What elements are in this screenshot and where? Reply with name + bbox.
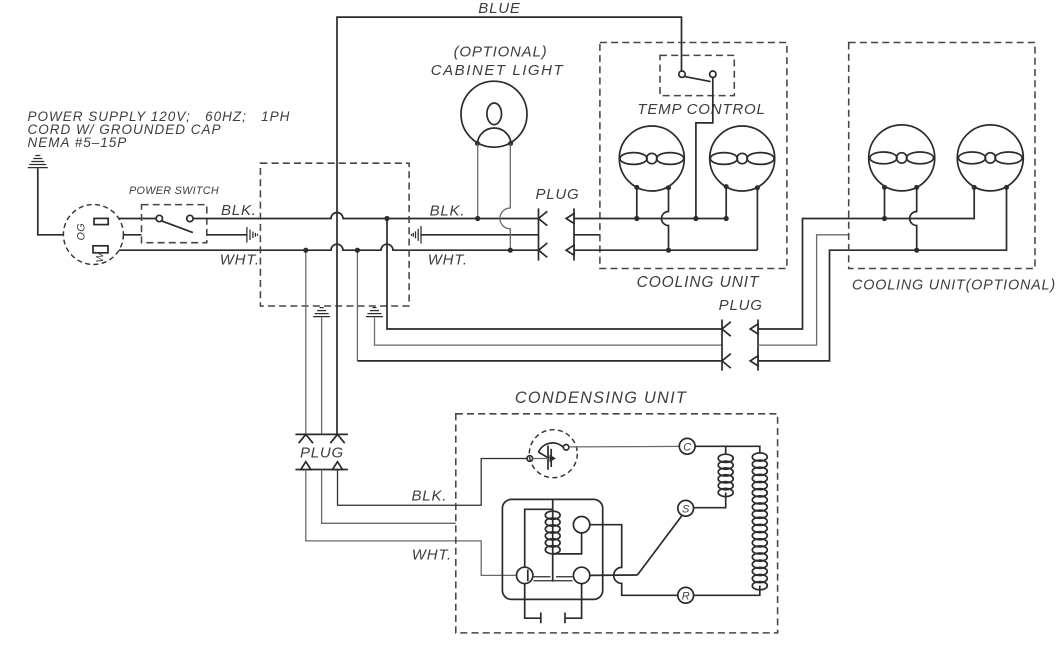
switch blade [162,221,193,233]
svg-text:CONDENSING UNIT: CONDENSING UNIT [515,389,687,407]
svg-text:CABINET LIGHT: CABINET LIGHT [431,62,565,79]
junction dots [303,216,919,253]
cooling unit box (dashed) [600,43,787,269]
wire lamp lead right (hop over BLK) [500,144,510,251]
wire BLK inside cooling unit [574,218,726,220]
svg-text:WHT.: WHT. [412,547,452,564]
wire ground to plug [38,168,64,235]
relay terminal right [573,567,589,583]
relay contact blade tick [527,570,529,582]
svg-text:R: R [682,591,690,603]
lamp base dome [477,128,511,144]
wire WHT branch to plug P2 [356,250,358,361]
svg-text:COOLING UNIT: COOLING UNIT [637,274,760,291]
svg-text:PLUG: PLUG [300,445,344,462]
wire M2 lead right [756,188,758,251]
motor M3 condenser fan [869,125,935,191]
svg-text:PLUG: PLUG [719,297,763,314]
wire start winding to S [694,493,726,508]
wire ground stub to condensing unit [322,470,456,524]
terminal S [678,500,694,516]
wire M1 lead left [636,187,638,218]
wire WHT drop to plug P3 [305,250,307,434]
wire M3 lead right (hop over BLK) [910,187,917,250]
overload cutout right leg [565,584,582,624]
switch contact left [156,215,162,221]
wire BLUE [337,17,682,434]
temp control blade [685,77,711,82]
wire BLK branch to plug P2 [387,219,722,330]
motor M2 evaporator fan [710,126,775,191]
svg-text:BLUE: BLUE [478,0,521,17]
wire WHT inside cooling unit [574,249,757,251]
wire ground to plug P1 [421,234,539,236]
overload terminal right [563,445,569,451]
connector P1 male half [539,208,548,260]
terminal R [678,587,694,603]
overload terminal left [527,456,533,462]
wire ground branch to plug P2 [375,318,723,346]
wire ground stub (plug to switch box) [123,234,141,236]
motor M1 evaporator fan [619,126,684,191]
svg-text:WHT.: WHT. [220,252,260,269]
wire M2 lead left [725,187,727,219]
overload bimetal arc [539,443,564,452]
wire temp control to BLK [696,77,713,218]
relay terminal left [517,567,533,583]
lamp L1 cabinet light (circle) [461,81,527,147]
svg-text:S: S [682,504,690,516]
temp control contact right [710,71,716,77]
svg-text:PLUG: PLUG [535,186,579,203]
overload actuator link [538,452,549,458]
wire relay upper to R (hop over contact wire) [590,525,678,596]
junction box (dashed) [260,163,409,306]
prong blade W (bottom) [93,246,108,253]
overload moving contact arrow [550,455,557,462]
wire lamp lead left [477,144,479,219]
motor M4 terminal dots [972,185,977,190]
wire relay coil top branch [525,509,553,567]
condensing unit box (dashed) [456,414,778,633]
motor M1 terminal dots [634,185,639,190]
wire relay coil bottom branch [553,533,582,554]
svg-text:POWER SWITCH: POWER SWITCH [129,185,219,197]
svg-text:BLK.: BLK. [430,203,466,220]
chassis ground symbol (left) [247,227,258,243]
chassis ground symbol (center) [412,226,422,244]
overload protector OL (dashed circle) [529,430,577,478]
wire P2 ground riser [758,235,849,345]
wire M1 lead right (hop over BLK) [662,188,669,251]
connector P3 male half (top) [295,434,348,443]
svg-text:W: W [94,252,106,263]
wire WHT to condensing unit [306,470,517,576]
relay terminal upper (to R) [573,517,589,533]
run winding coil [752,453,767,590]
lamp bulb envelope [487,103,502,125]
start switch blade (to S) [637,516,682,575]
wire ground stub (switch box to chassis) [207,234,247,236]
svg-text:BLK.: BLK. [221,202,257,219]
motor M4 condenser fan [957,125,1023,191]
start relay box [502,499,602,599]
wire ground drop to plug P3 [321,318,323,435]
wire M3 lead left [884,187,886,218]
ground symbol (plug P3 ground) [313,308,330,317]
plug P1 NEMA 5-15 cap (dashed circle) [63,205,123,265]
wire BLK rail [193,213,538,219]
overload cutout left leg [525,584,541,624]
svg-text:WHT.: WHT. [428,252,468,269]
temp control contact left [679,71,685,77]
switch contact right [187,215,193,221]
optional cooling unit box (dashed) [849,43,1035,269]
svg-text:(OPTIONAL): (OPTIONAL) [454,44,548,61]
motor M2 terminal dots [724,184,729,189]
connector P2 male half [722,320,731,371]
wire run winding to R [694,586,760,596]
svg-text:BLK.: BLK. [412,488,448,505]
relay coil [545,511,560,554]
overload contact plates [547,446,549,470]
relay plunger stem [552,499,554,581]
wire BLK to condensing unit [338,459,527,506]
temp control box (dashed) [660,55,734,95]
start winding coil [718,454,733,496]
wire P2 to optional BLK riser [758,187,974,329]
terminal C [679,438,695,454]
wire ground stub into cooling unit [574,234,600,236]
svg-text:TEMP CONTROL: TEMP CONTROL [637,101,765,118]
connector P1 female half [566,208,574,260]
wire overload to C terminal [569,445,679,448]
wire P2 to optional WHT riser [758,187,1007,361]
wire relay contact to start switch [590,574,638,576]
wire WHT rail [119,244,539,250]
svg-text:NEMA #5–15P: NEMA #5–15P [28,135,128,150]
connector P3 female half (bottom) [295,462,348,470]
ground symbol (power cord earth ground) [28,156,48,168]
motor M3 terminal dots [882,185,887,190]
svg-text:OG: OG [76,223,88,240]
svg-text:COOLING UNIT(OPTIONAL): COOLING UNIT(OPTIONAL) [852,278,1056,294]
wire BLK plug-to-switch [119,218,156,220]
ground symbol (plug P2 ground) [366,308,383,317]
wire C to windings [695,446,760,454]
connector P2 female half [750,320,758,371]
wire overload left lead [533,458,548,460]
power switch box (dashed) [142,205,207,243]
prong blade (top) [94,218,108,224]
lamp terminal dots [475,141,480,146]
relay contact lines [534,577,573,581]
svg-text:C: C [683,442,691,454]
